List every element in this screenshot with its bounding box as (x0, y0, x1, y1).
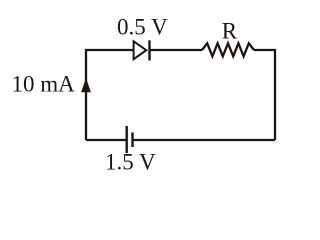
resistor R (202, 43, 254, 56)
svg-text:0.5 V: 0.5 V (117, 15, 168, 40)
svg-text:1.5 V: 1.5 V (105, 149, 156, 174)
wire top-left segment (anode side) (86, 50, 134, 140)
wire diode-to-resistor (150, 49, 203, 51)
battery B1 short plate (131, 133, 133, 148)
svg-text:10 mA: 10 mA (12, 71, 76, 96)
current direction arrow (10 mA) (81, 78, 91, 92)
svg-text:R: R (222, 18, 238, 43)
wire bottom-left (left corner to battery) (86, 139, 127, 141)
diode D1 (0.5 V) (134, 40, 150, 60)
wire resistor to top-right corner and right side (254, 50, 275, 140)
battery B1 (1.5 V) long plate (125, 126, 127, 153)
wire bottom-right (battery to right corner) (133, 139, 276, 141)
